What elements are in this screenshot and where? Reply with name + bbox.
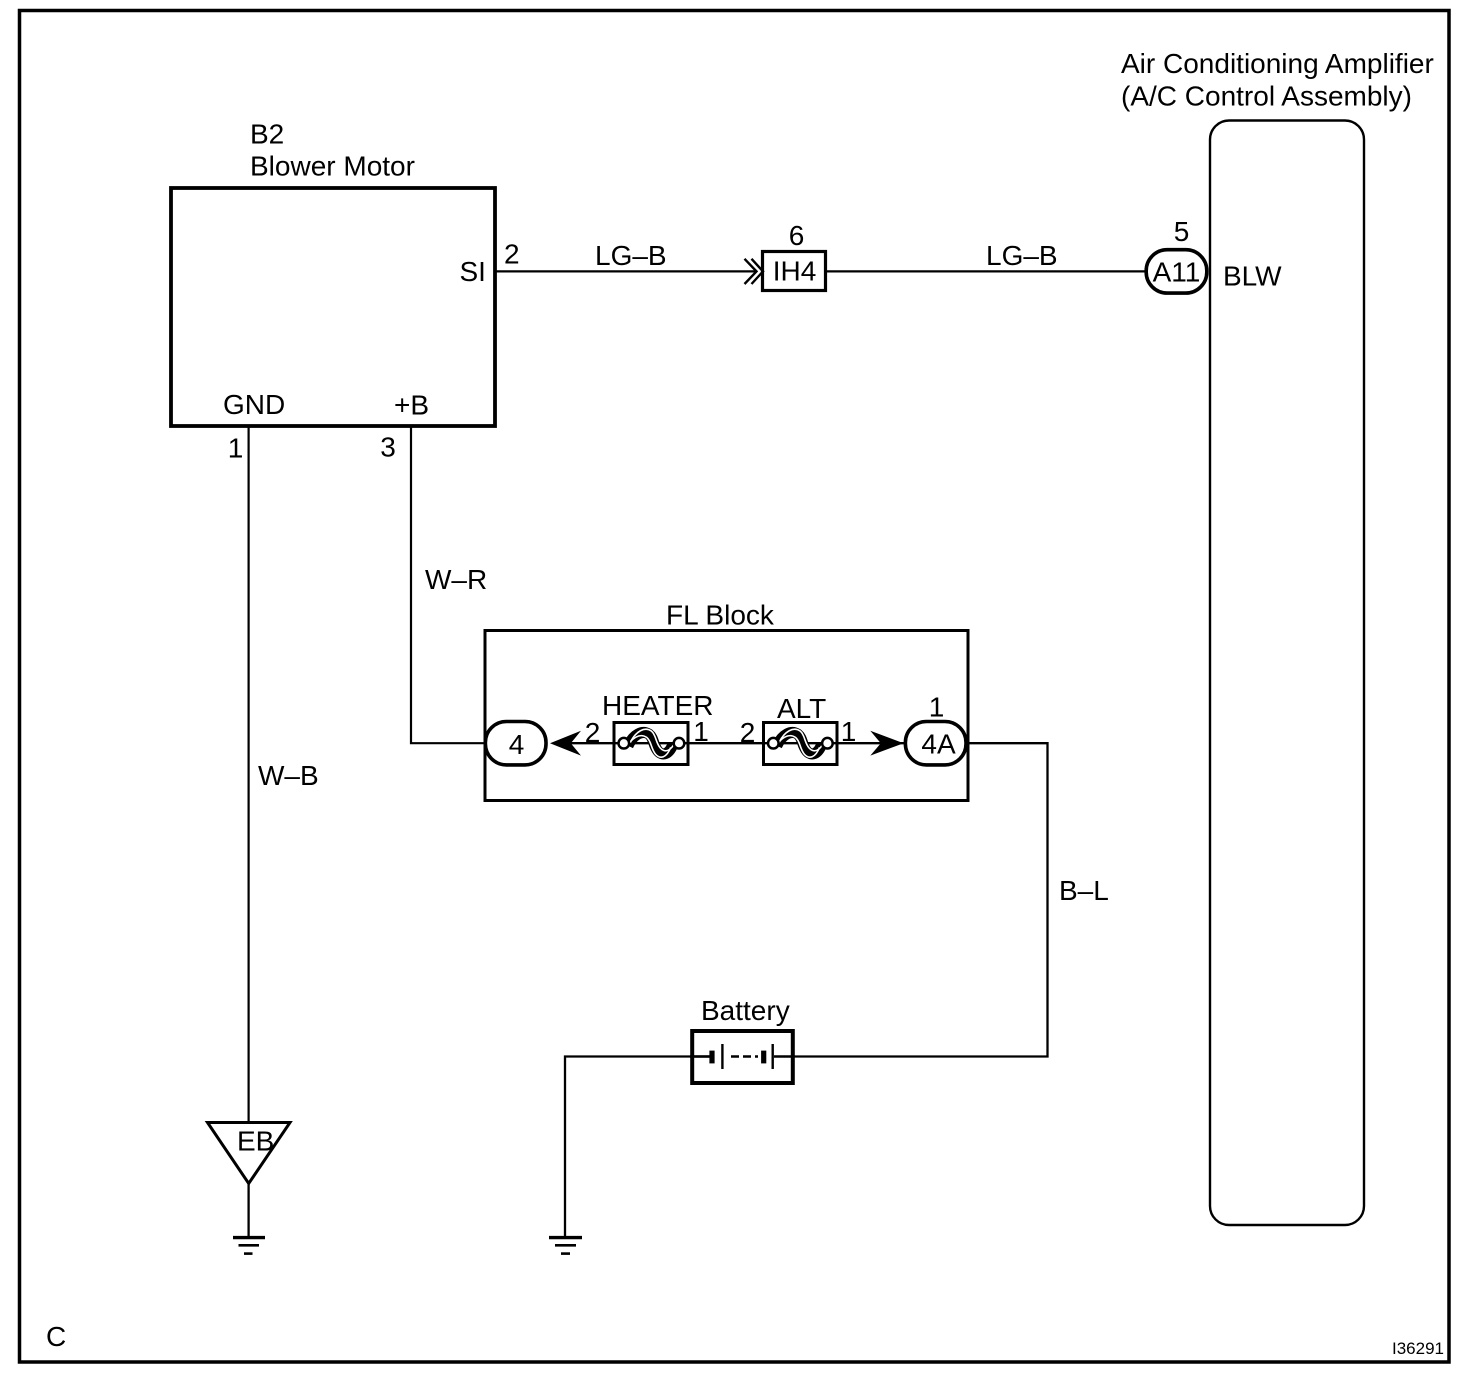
svg-text:B2: B2 bbox=[250, 119, 284, 150]
svg-text:SI: SI bbox=[460, 256, 486, 287]
svg-text:Battery: Battery bbox=[701, 995, 790, 1026]
ground symbol EB bbox=[233, 1238, 265, 1254]
ground EB triangle bbox=[208, 1123, 291, 1184]
battery cell symbol bbox=[690, 1044, 795, 1069]
svg-text:6: 6 bbox=[789, 220, 805, 251]
connector 4A oval bbox=[905, 722, 966, 765]
svg-text:2: 2 bbox=[585, 717, 601, 748]
svg-text:FL Block: FL Block bbox=[666, 600, 775, 631]
svg-text:A11: A11 bbox=[1153, 257, 1201, 288]
blower motor B2 box bbox=[171, 188, 495, 426]
FL block box bbox=[485, 631, 968, 801]
connector 4 oval bbox=[485, 722, 546, 765]
arrow left bbox=[550, 731, 581, 756]
blower motor B2 label bbox=[250, 119, 415, 182]
svg-text:4: 4 bbox=[509, 729, 525, 760]
svg-text:W–B: W–B bbox=[258, 760, 319, 791]
svg-text:C: C bbox=[46, 1321, 66, 1352]
svg-text:2: 2 bbox=[504, 239, 520, 270]
svg-text:EB: EB bbox=[237, 1126, 274, 1157]
wire +B to FL block bbox=[411, 426, 486, 743]
svg-text:(A/C Control Assembly): (A/C Control Assembly) bbox=[1121, 81, 1412, 112]
svg-text:3: 3 bbox=[380, 432, 396, 463]
wire IH4 to A11 bbox=[827, 270, 1146, 272]
connector IH4 chevrons bbox=[745, 259, 764, 284]
svg-text:BLW: BLW bbox=[1223, 261, 1282, 292]
fuse ALT box bbox=[764, 723, 838, 765]
svg-text:W–R: W–R bbox=[425, 564, 487, 595]
fuse ALT element bbox=[775, 729, 825, 757]
fuse HEATER box bbox=[614, 723, 688, 765]
wire 4A to battery bbox=[795, 743, 1048, 1056]
arrow right bbox=[870, 731, 903, 756]
fuse ALT terminal circles bbox=[768, 738, 833, 749]
svg-text:4A: 4A bbox=[921, 729, 956, 760]
svg-text:Air Conditioning Amplifier: Air Conditioning Amplifier bbox=[1121, 48, 1434, 79]
svg-text:ALT: ALT bbox=[777, 693, 826, 724]
wire SI to IH4 bbox=[495, 270, 755, 272]
svg-text:1: 1 bbox=[693, 716, 709, 747]
connector IH4 box bbox=[763, 252, 826, 291]
svg-text:I36291: I36291 bbox=[1392, 1339, 1444, 1358]
svg-text:GND: GND bbox=[223, 389, 285, 420]
svg-text:IH4: IH4 bbox=[773, 256, 817, 287]
battery box bbox=[692, 1031, 793, 1083]
amplifier U1 rounded box bbox=[1210, 121, 1364, 1226]
amplifier title bbox=[1121, 48, 1434, 112]
wire GND to EB bbox=[248, 426, 250, 1122]
svg-text:Blower Motor: Blower Motor bbox=[250, 151, 415, 182]
svg-text:5: 5 bbox=[1174, 216, 1190, 247]
svg-text:1: 1 bbox=[929, 692, 945, 723]
ground symbol battery bbox=[549, 1238, 582, 1254]
svg-text:2: 2 bbox=[740, 717, 756, 748]
svg-text:+B: +B bbox=[394, 390, 429, 421]
svg-text:LG–B: LG–B bbox=[986, 240, 1058, 271]
svg-text:B–L: B–L bbox=[1059, 875, 1109, 906]
wire EB to ground bbox=[247, 1184, 249, 1237]
fuse HEATER element bbox=[626, 729, 676, 757]
wire battery to ground bbox=[565, 1057, 710, 1237]
svg-text:LG–B: LG–B bbox=[595, 240, 667, 271]
svg-text:1: 1 bbox=[841, 716, 857, 747]
connector A11 oval bbox=[1146, 250, 1207, 293]
wire through fuses bbox=[560, 742, 910, 744]
fuse HEATER terminal circles bbox=[619, 738, 685, 749]
svg-text:1: 1 bbox=[228, 433, 244, 464]
